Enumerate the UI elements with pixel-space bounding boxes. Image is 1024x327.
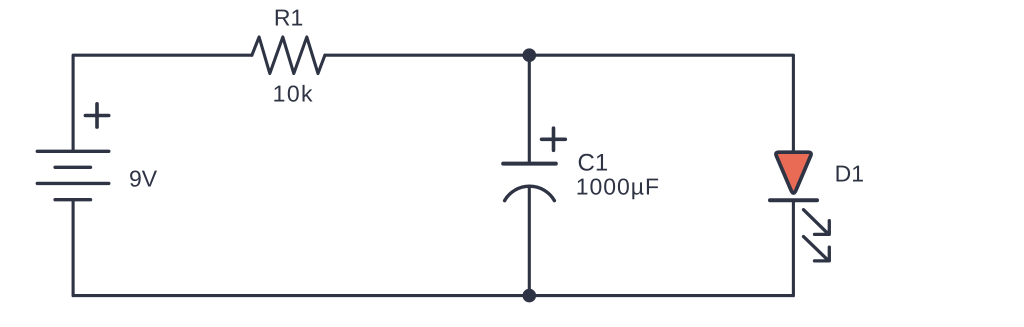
wire bottom from battery to LED — [73, 294, 793, 297]
svg-text:R1: R1 — [274, 5, 303, 31]
svg-text:D1: D1 — [835, 161, 864, 187]
LED light arrow 1 — [804, 210, 830, 235]
capacitor C1 top plate — [503, 162, 556, 166]
wire capacitor top — [528, 55, 531, 162]
svg-text:9V: 9V — [129, 165, 158, 191]
LED D1 triangle — [776, 152, 811, 193]
battery plus sign — [85, 104, 108, 127]
svg-text:10k: 10k — [273, 81, 314, 107]
wire top-left from battery to resistor — [73, 55, 252, 151]
capacitor plus sign — [542, 128, 566, 150]
wire capacitor bottom — [528, 186, 531, 295]
node junction top — [523, 48, 537, 62]
resistor R1 — [252, 37, 325, 74]
wire battery bottom to bottom-left corner — [72, 200, 75, 296]
battery 9V — [37, 151, 109, 199]
LED cathode bar — [770, 198, 817, 202]
wire LED bottom — [792, 202, 795, 296]
node junction bottom — [523, 289, 537, 303]
LED light arrow 2 — [804, 237, 830, 261]
wire top-right from resistor to LED — [325, 55, 794, 152]
svg-text:1000µF: 1000µF — [576, 174, 660, 200]
capacitor C1 curved plate — [505, 186, 555, 200]
